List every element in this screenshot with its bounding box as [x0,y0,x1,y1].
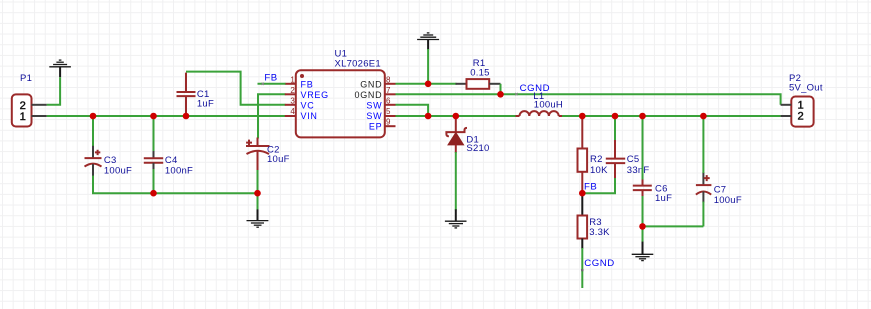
svg-text:S210: S210 [466,143,489,154]
svg-text:1: 1 [290,75,295,84]
junction node C7/out rail [700,113,707,120]
svg-text:5V_Out: 5V_Out [789,83,823,94]
wire VIN rail P1 pin1 to U1 pin4 [47,115,286,117]
wire ground drop to pin8 wire [427,49,429,84]
svg-text:2: 2 [290,86,295,95]
svg-text:7: 7 [386,86,391,95]
svg-text:C5: C5 [627,154,640,165]
junction node C1/rail [183,113,190,120]
svg-text:C3: C3 [104,155,117,166]
junction node R2/SW out rail [579,113,586,120]
wire C3 top [92,116,94,146]
svg-text:100uH: 100uH [534,100,563,111]
svg-text:GND: GND [360,79,382,89]
svg-text:CGND: CGND [584,258,614,269]
svg-text:1uF: 1uF [197,98,214,109]
wire C7 top [702,116,704,173]
capacitor C1 [177,73,196,116]
wire C5 top [614,116,616,140]
svg-text:P1: P1 [20,73,32,84]
svg-text:4: 4 [290,107,295,116]
junction node C3/rail [90,113,97,120]
svg-text:3: 3 [290,96,295,105]
svg-text:VREG: VREG [301,90,329,100]
U1 pin 9 EP stub [385,125,396,127]
svg-text:6: 6 [386,96,391,105]
junction node GND/pin8 wire [425,81,432,88]
svg-text:0GND: 0GND [354,90,382,100]
CGND net label anchor tick [515,93,517,95]
svg-text:EP: EP [369,122,382,132]
svg-text:FB: FB [301,79,314,89]
svg-text:0.15: 0.15 [470,67,490,78]
svg-text:R2: R2 [590,154,603,165]
resistor R3 [578,193,588,238]
svg-text:2: 2 [20,100,26,112]
junction node FB divider [579,190,586,197]
wire FB stub to pin 1 [258,83,286,85]
svg-text:1uF: 1uF [655,193,672,204]
ground below D1 [445,209,467,228]
svg-text:3.3K: 3.3K [589,227,610,238]
junction node SW pin6 [425,113,432,120]
svg-text:SW: SW [366,100,382,110]
svg-text:XL7026E1: XL7026E1 [335,59,381,70]
wire C6 top [642,116,644,180]
svg-text:2: 2 [798,111,804,123]
svg-text:10uF: 10uF [267,154,290,165]
U1 pin 5 stub [385,115,396,117]
junction node C6 ground [639,223,646,230]
svg-text:VIN: VIN [301,111,318,121]
P1 pin 1 stub [32,115,47,117]
wire C6 bottom [642,196,644,243]
U1 pin 2 stub [285,93,296,95]
junction node C2/bottom rail [254,190,261,197]
U1 pin 3 stub [285,104,296,106]
U1 pin 1 stub [285,83,296,85]
FB net label anchor tick [262,83,264,85]
capacitor C6 [633,179,652,198]
wire C5 bottom to FB node [582,178,615,193]
U1 pin 4 stub [285,115,296,117]
junction node R1/CGND wire [497,91,504,98]
capacitor C5 [606,139,625,179]
junction node C4/rail [150,113,157,120]
junction node C4/bottom rail [150,190,157,197]
svg-text:8: 8 [386,75,391,84]
svg-text:1: 1 [798,99,804,111]
svg-text:FB: FB [584,182,597,193]
P2 pin 1 stub [781,104,792,106]
wire U1 pin6 bend to SW rail [396,105,429,116]
wire 0GND/CGND net U1 pin7 to P2 pin1 [396,94,781,105]
CGND net label anchor tick [581,269,583,271]
wire SW rail U1 pin5 to L1 [396,115,518,117]
capacitor C4 [144,150,163,170]
P2 pin 2 stub [781,115,792,117]
svg-text:100uF: 100uF [714,195,742,206]
wire SW rail L1 to P2 pin2 [562,115,781,117]
capacitor C2 [246,138,270,172]
junction node C6/out rail [639,113,646,120]
capacitor C3 [85,145,102,177]
wire ground to P1 pin2 [47,77,60,105]
wire R1 right drop [500,84,502,95]
wire U1 pin8 to R1 [396,83,457,85]
svg-text:33nF: 33nF [627,165,650,176]
inductor L1 [516,111,563,116]
IC U1 body [296,70,385,137]
svg-text:10K: 10K [590,165,608,176]
junction node D1/SW rail [453,113,460,120]
wire C2 bottom [257,170,259,210]
connector P2 [791,97,813,127]
wire R3 bottom CGND stub [581,248,583,288]
connector P1 [12,94,32,126]
ground (earth) above P1 [49,60,71,77]
svg-text:1: 1 [20,111,26,123]
diode D1 (schottky) [446,116,467,153]
wire bottom rail [92,192,258,194]
capacitor C7 [696,172,712,203]
ground below C6 [632,242,654,261]
ground (earth) above U1 [417,33,439,50]
svg-text:VC: VC [301,100,315,110]
wire C4 top [153,116,155,151]
svg-text:100nF: 100nF [165,165,193,176]
svg-text:SW: SW [366,111,382,121]
ground below C2 [247,209,269,227]
wire C7 bottom [702,202,704,227]
U1 pin 7 stub [385,93,396,95]
svg-text:C4: C4 [165,155,178,166]
resistor R2 [578,116,588,193]
wire C4 bottom [153,169,155,193]
wire C6/C7 bottom rail [643,225,704,227]
svg-text:100uF: 100uF [104,165,132,176]
U1 pin1 dot [300,74,304,78]
svg-text:9: 9 [386,118,391,127]
svg-text:FB: FB [264,73,277,84]
P1 pin 2 stub [32,104,47,106]
svg-text:C7: C7 [714,184,727,195]
junction node C5/out rail [612,113,619,120]
wire C3 bottom [92,176,94,194]
U1 pin 8 stub [385,83,396,85]
U1 pin 6 stub [385,104,396,106]
wire VREG to C2 [258,94,286,138]
R3 bottom pin [581,239,583,249]
wire D1 to ground [455,152,457,210]
resistor R1 [456,79,501,89]
svg-text:5: 5 [386,107,391,116]
wire C1 top to VC [186,72,286,105]
